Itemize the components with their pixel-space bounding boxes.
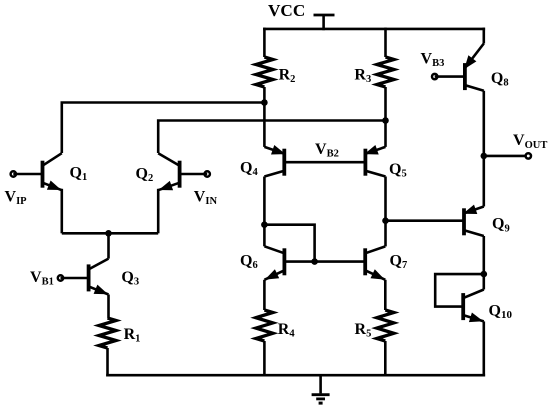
terminal VOUT	[526, 153, 531, 158]
junction VOUT node	[481, 153, 488, 160]
svg-text:VB1: VB1	[30, 269, 54, 288]
wire R3 top lead	[384, 28, 387, 57]
resistor R1	[99, 318, 116, 348]
transistor Q5	[364, 145, 385, 177]
svg-text:Q6: Q6	[240, 253, 258, 272]
transistor Q2	[158, 153, 179, 190]
terminal VB1	[58, 275, 63, 280]
wire Q7 emitter to R5	[384, 280, 387, 310]
junction node A	[261, 221, 268, 228]
svg-text:Q7: Q7	[390, 253, 408, 272]
svg-text:R4: R4	[278, 321, 296, 340]
svg-text:VCC: VCC	[268, 1, 305, 20]
resistor R3	[377, 57, 394, 87]
wire R3 node down to Q5 emitter	[384, 121, 387, 147]
wire Q4 collector down to node A	[263, 177, 266, 225]
wire node B down to Q7 collector	[384, 221, 387, 247]
wire Q6/Q7 base link	[284, 260, 365, 263]
transistor Q7	[365, 246, 385, 279]
wire Q6 emitter to R4	[263, 280, 266, 310]
wire R2 bottom lead	[263, 87, 266, 103]
junction tail node	[105, 230, 112, 237]
transistor Q4	[264, 145, 285, 177]
wire Q5 collector down to node B	[384, 177, 387, 221]
transistor Q8	[464, 44, 484, 91]
resistor R4	[256, 310, 273, 341]
svg-text:VB3: VB3	[421, 51, 445, 70]
junction node below R2	[261, 99, 268, 106]
wire ground rail	[106, 374, 485, 377]
wire R4 to ground rail	[263, 341, 266, 377]
wire VOUT node to terminal	[484, 155, 529, 158]
svg-text:R5: R5	[355, 321, 372, 340]
svg-text:VIN: VIN	[194, 188, 218, 207]
wire R2 top lead	[263, 28, 266, 57]
svg-text:VOUT: VOUT	[513, 132, 547, 151]
svg-text:Q9: Q9	[492, 216, 510, 235]
wire row2: Q2 collector to R3 node	[158, 121, 385, 154]
wire VIP to Q1 base	[13, 173, 42, 176]
transistor Q6	[264, 246, 284, 279]
svg-text:Q2: Q2	[136, 166, 154, 185]
wire Q1 emitter to tail	[60, 189, 63, 234]
svg-text:VIP: VIP	[5, 188, 28, 207]
terminal VIP	[11, 171, 16, 176]
wire Q8 collector to VOUT node	[482, 91, 485, 156]
wire Q3 emitter to R1	[107, 295, 110, 319]
svg-text:Q5: Q5	[389, 161, 407, 180]
transistor Q1	[43, 153, 62, 190]
junction on Q6/Q7 base line	[311, 258, 318, 265]
resistor R2	[256, 57, 273, 87]
transistor Q9	[463, 205, 484, 236]
svg-text:Q1: Q1	[70, 165, 88, 184]
terminal VB3	[432, 74, 437, 79]
wire Q9 collector down to Q10	[482, 236, 485, 290]
svg-text:Q4: Q4	[240, 159, 258, 178]
wire row1: R2 node to Q1 collector	[62, 103, 265, 154]
wire node A to Q6/Q7 base link	[264, 225, 314, 262]
wire Q10 emitter to ground rail	[482, 321, 485, 376]
svg-text:VB2: VB2	[315, 141, 339, 160]
wire VCC top rail	[263, 28, 485, 31]
wire tail to Q3 collector	[107, 233, 110, 258]
wire Q2 base to VIN	[180, 173, 208, 176]
transistor Q3	[89, 259, 109, 295]
wire node B to Q9 base	[386, 219, 465, 222]
ground symbol	[312, 375, 330, 403]
wire R3 bottom lead	[384, 87, 387, 121]
wire R1 to ground rail	[106, 348, 109, 377]
transistor Q10	[463, 290, 484, 323]
svg-text:Q8: Q8	[491, 70, 509, 89]
wire VB3 to Q8 base	[435, 75, 465, 78]
wire VB1 to Q3 base	[61, 277, 89, 280]
wire rail to Q8 emitter	[482, 28, 485, 44]
wire VOUT node down to Q9 emitter	[482, 156, 485, 207]
power VCC symbol	[314, 15, 335, 30]
wire node A down to Q6 collector	[263, 225, 266, 247]
svg-text:R2: R2	[279, 66, 296, 85]
junction node below R3	[382, 117, 389, 124]
resistor R5	[377, 310, 394, 341]
wire differential pair tail	[62, 232, 158, 235]
svg-text:R1: R1	[124, 326, 141, 345]
wire Q10 base loop	[435, 274, 484, 307]
svg-text:Q3: Q3	[121, 269, 139, 288]
wire VB2: Q4 base to Q5 base	[284, 161, 365, 164]
junction node B	[382, 217, 389, 224]
terminal VIN	[205, 171, 210, 176]
wire R5 to ground rail	[384, 341, 387, 377]
junction Q10 base tie	[481, 271, 488, 278]
wire Q2 emitter to tail	[157, 189, 160, 234]
svg-text:Q10: Q10	[489, 302, 513, 321]
wire R2 node down to Q4 emitter	[263, 103, 266, 147]
svg-text:R3: R3	[354, 67, 371, 86]
